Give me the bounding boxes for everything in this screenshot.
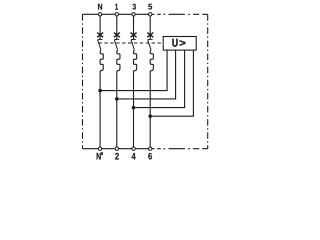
label U>: greater-than sign [180, 40, 186, 45]
contact tick pole N [98, 39, 153, 49]
terminal label N-prime: letter N [97, 153, 101, 160]
trip element pole 5 [150, 50, 153, 71]
terminal label 5 [148, 4, 152, 10]
terminal circle 2 [115, 147, 118, 150]
terminal label 4 [132, 153, 136, 160]
pole 1 wire bottom [116, 71, 118, 149]
trip element pole 3 [134, 50, 137, 71]
junction dot pole N [98, 89, 102, 93]
enclosure bottom border solid segment [83, 148, 155, 150]
terminal label N-prime: prime mark [101, 152, 103, 155]
terminal circle 6 [149, 147, 152, 150]
terminal label 1 [115, 4, 118, 10]
pole 3 wire top [133, 14, 135, 39]
trip element pole 1 [117, 50, 120, 71]
label U>: letter U [172, 39, 177, 47]
enclosure left border chain line [82, 14, 84, 148]
junction dot pole 5 [148, 114, 152, 118]
contact blade pole 1 [114, 40, 117, 50]
terminal label 6 [148, 153, 152, 160]
contact tick pole 5 [148, 38, 153, 40]
pole 5 wire bottom [149, 71, 151, 149]
sense wire from U> to pole 5 [150, 50, 193, 116]
breaker cross pole N [97, 33, 103, 38]
sense wire from U> to pole 3 [134, 50, 185, 108]
enclosure right border chain line [207, 14, 209, 148]
pole N wire top [100, 14, 150, 148]
terminal circle 4 [132, 147, 135, 150]
terminal label N [98, 4, 102, 10]
sense wire from U> to pole 1 [117, 50, 176, 99]
terminal circle N [98, 13, 101, 16]
pole 1 wire top [116, 14, 118, 39]
terminal circle 1 [115, 13, 118, 16]
junction dot pole 3 [132, 106, 136, 110]
breaker cross pole 1 [114, 33, 120, 38]
overvoltage release box U> [163, 37, 196, 51]
terminal circle 5 [149, 13, 152, 16]
breaker cross pole 3 [131, 33, 137, 38]
trip element pole N [100, 50, 103, 71]
mechanical linkage dashed line to U> box [99, 42, 164, 44]
enclosure bottom border chain segment [157, 148, 208, 150]
contact tick pole 1 [114, 38, 119, 40]
breaker cross pole 5 [147, 33, 153, 38]
pole 3 wire bottom [133, 71, 135, 149]
contact blade pole 3 [131, 40, 134, 50]
pole N wire bottom [99, 71, 101, 149]
enclosure top border chain segment [157, 13, 208, 15]
contact tick pole 3 [131, 38, 136, 40]
terminal circle N' [98, 147, 101, 150]
contact blade pole N [98, 40, 101, 50]
terminal label 2 [115, 153, 119, 160]
terminal label 3 [132, 4, 136, 10]
pole 5 wire top [149, 14, 151, 39]
terminal circle 3 [132, 13, 135, 16]
junction dot pole 1 [115, 97, 119, 101]
enclosure top border solid segment [83, 13, 155, 15]
sense wire from U> to pole N [100, 50, 193, 116]
contact blade pole 5 [148, 40, 151, 50]
